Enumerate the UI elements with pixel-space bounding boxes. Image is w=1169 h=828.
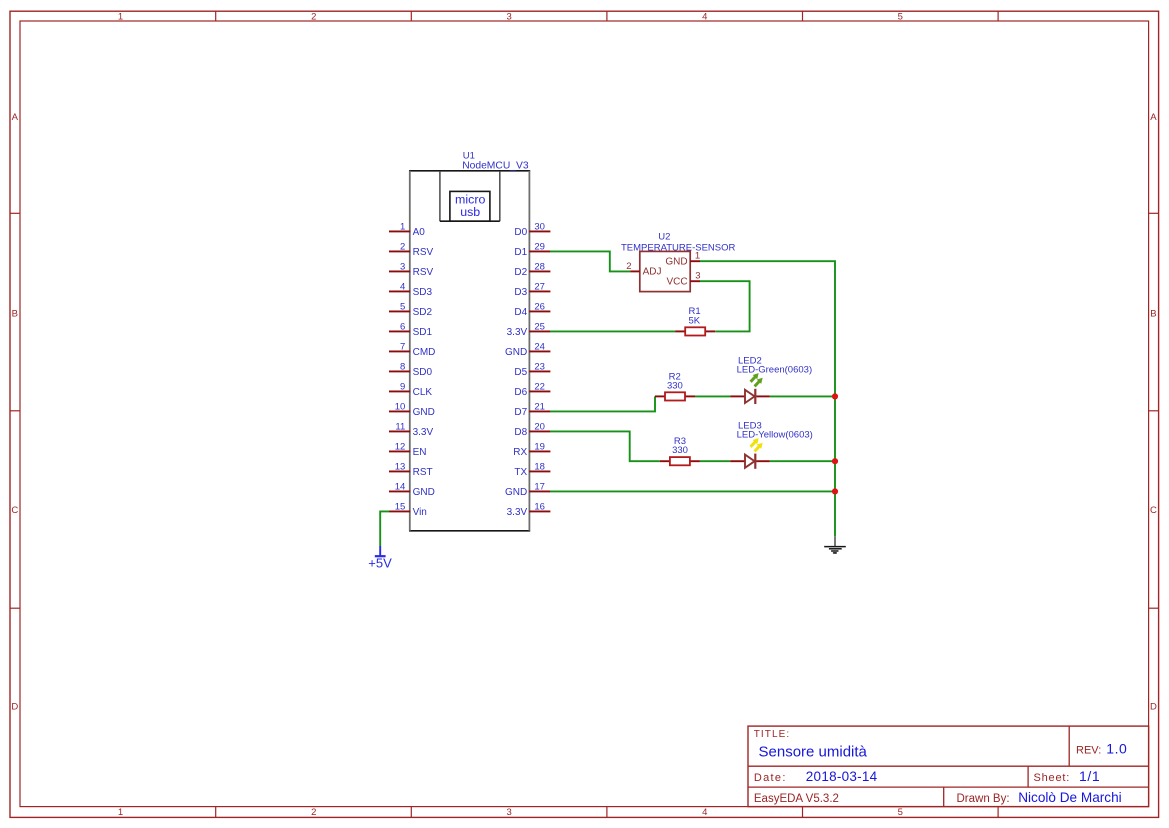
wire R2 to LED2 xyxy=(695,395,730,397)
U2 pin 3 VCC xyxy=(666,271,700,288)
svg-text:2018-03-14: 2018-03-14 xyxy=(806,769,878,784)
svg-text:3.3V: 3.3V xyxy=(507,327,528,338)
U2 value TEMPERATURE-SENSOR xyxy=(621,243,736,254)
svg-text:TEMPERATURE-SENSOR: TEMPERATURE-SENSOR xyxy=(621,243,736,254)
U1 pin 28 D2 xyxy=(514,261,550,278)
svg-text:22: 22 xyxy=(534,381,545,392)
svg-text:30: 30 xyxy=(534,221,545,232)
wire U2.GND(1) to ground trunk xyxy=(700,261,835,536)
svg-text:GND: GND xyxy=(665,256,687,267)
wire U1.D1(29) to U2.ADJ xyxy=(550,251,630,271)
U1 pin 2 RSV xyxy=(389,241,433,258)
svg-text:15: 15 xyxy=(395,501,406,512)
svg-text:20: 20 xyxy=(534,421,545,432)
+5V power flag xyxy=(368,546,392,570)
U1 pin 18 TX xyxy=(514,461,550,478)
svg-text:3.3V: 3.3V xyxy=(507,507,528,518)
U1 pin 16 3.3V xyxy=(507,501,551,518)
svg-text:GND: GND xyxy=(505,487,527,498)
U1 pin 7 CMD xyxy=(389,341,435,358)
U1 pin 23 D5 xyxy=(514,361,550,378)
svg-text:21: 21 xyxy=(534,401,545,412)
svg-text:D6: D6 xyxy=(514,387,527,398)
U1 pin 15 Vin xyxy=(389,501,427,518)
svg-text:GND: GND xyxy=(413,487,435,498)
U1 pin 9 CLK xyxy=(389,381,432,398)
U1 pin 11 3.3V xyxy=(389,421,434,438)
U1 pin 19 RX xyxy=(513,441,550,458)
svg-text:2: 2 xyxy=(311,12,316,23)
svg-text:19: 19 xyxy=(534,441,545,452)
svg-text:B: B xyxy=(1150,308,1156,319)
svg-text:9: 9 xyxy=(400,381,405,392)
svg-text:EN: EN xyxy=(413,447,427,458)
svg-text:+5V: +5V xyxy=(368,555,392,570)
U2 reference designator xyxy=(658,232,670,243)
Date value xyxy=(806,769,878,784)
svg-text:RST: RST xyxy=(413,467,433,478)
R1 reference label xyxy=(689,306,701,317)
ruler column ticks xyxy=(216,11,998,817)
svg-text:3: 3 xyxy=(400,261,405,272)
U1 pin 8 SD0 xyxy=(389,361,432,378)
svg-text:D3: D3 xyxy=(514,287,527,298)
U1 pin 10 GND xyxy=(389,401,435,418)
LED3 light arrows xyxy=(748,436,765,453)
IC U2 TEMPERATURE-SENSOR body xyxy=(640,251,690,291)
svg-text:12: 12 xyxy=(395,441,406,452)
title value Sensore umidita xyxy=(759,743,868,760)
svg-text:CMD: CMD xyxy=(413,347,436,358)
U1 usb notch outline xyxy=(440,171,500,221)
wire LED3 to trunk xyxy=(770,460,835,462)
U1 pin 5 SD2 xyxy=(389,301,432,318)
svg-text:29: 29 xyxy=(534,241,545,252)
svg-text:D7: D7 xyxy=(514,407,527,418)
svg-text:17: 17 xyxy=(534,481,545,492)
LED2 light arrows xyxy=(748,371,765,388)
U1 pin 29 D1 xyxy=(514,241,550,258)
svg-text:GND: GND xyxy=(413,407,435,418)
svg-text:5: 5 xyxy=(898,12,903,23)
svg-text:14: 14 xyxy=(395,481,406,492)
svg-text:23: 23 xyxy=(534,361,545,372)
LED3 value LED-Yellow(0603) xyxy=(737,430,813,441)
svg-text:LED-Green(0603): LED-Green(0603) xyxy=(737,365,813,376)
U1 value NodeMCU_V3 xyxy=(462,161,529,172)
U1 pin 30 D0 xyxy=(514,221,550,238)
svg-text:2: 2 xyxy=(400,241,405,252)
svg-text:13: 13 xyxy=(395,461,406,472)
svg-text:Drawn By:: Drawn By: xyxy=(957,793,1010,805)
resistor R1 xyxy=(675,327,715,335)
svg-text:U2: U2 xyxy=(658,232,670,243)
U1 pin 4 SD3 xyxy=(389,281,432,298)
svg-text:1: 1 xyxy=(695,250,700,261)
junction node at trunk y=461.2 xyxy=(832,458,838,464)
svg-text:GND: GND xyxy=(505,347,527,358)
svg-text:RX: RX xyxy=(513,447,527,458)
svg-text:LED-Yellow(0603): LED-Yellow(0603) xyxy=(737,430,813,441)
REV label xyxy=(1076,745,1101,757)
wire U2.VCC(3) to R1 xyxy=(700,281,750,331)
svg-text:Date:: Date: xyxy=(754,772,787,784)
svg-text:C: C xyxy=(1150,505,1157,516)
svg-text:B: B xyxy=(12,308,18,319)
U1 pin 6 SD1 xyxy=(389,321,432,338)
svg-text:SD1: SD1 xyxy=(413,327,433,338)
junction node at trunk y=396.4 xyxy=(832,393,838,399)
svg-text:1: 1 xyxy=(118,807,123,818)
svg-text:1.0: 1.0 xyxy=(1106,741,1127,757)
svg-text:usb: usb xyxy=(460,205,480,219)
ruler row labels xyxy=(11,112,1157,713)
svg-text:D0: D0 xyxy=(514,227,527,238)
svg-text:2: 2 xyxy=(311,807,316,818)
wire U1.D7(21) to R2 xyxy=(550,396,655,411)
svg-text:SD2: SD2 xyxy=(413,307,433,318)
title block TITLE label xyxy=(754,729,791,740)
svg-text:330: 330 xyxy=(672,445,688,456)
svg-text:D8: D8 xyxy=(514,427,527,438)
svg-text:VCC: VCC xyxy=(666,277,687,288)
svg-text:6: 6 xyxy=(400,321,405,332)
U2 pin 2 ADJ xyxy=(626,261,661,278)
EasyEDA version label xyxy=(754,793,839,805)
REV value 1.0 xyxy=(1106,741,1127,757)
R2 reference label xyxy=(669,371,681,382)
LED2 reference label xyxy=(738,355,762,366)
Sheet label xyxy=(1034,772,1071,784)
junction node at trunk y=491.4 xyxy=(832,488,838,494)
IC U1 NodeMCU_V3 body xyxy=(409,171,530,531)
svg-text:1: 1 xyxy=(400,221,405,232)
U1 pin 17 GND xyxy=(505,481,550,498)
micro usb connector box xyxy=(450,191,490,221)
svg-text:D: D xyxy=(11,701,18,712)
svg-text:SD3: SD3 xyxy=(413,287,433,298)
title block outline xyxy=(748,726,1149,807)
svg-text:RSV: RSV xyxy=(413,267,434,278)
U1 pin 20 D8 xyxy=(514,421,550,438)
svg-text:28: 28 xyxy=(534,261,545,272)
U1 pin 12 EN xyxy=(389,441,427,458)
U2 pin 1 GND xyxy=(665,250,700,267)
svg-text:3.3V: 3.3V xyxy=(413,427,434,438)
Date label xyxy=(754,772,787,784)
svg-text:10: 10 xyxy=(395,401,406,412)
U1 pin 25 3.3V xyxy=(507,321,551,338)
svg-text:D4: D4 xyxy=(514,307,527,318)
svg-text:18: 18 xyxy=(534,461,545,472)
svg-text:D: D xyxy=(1150,701,1157,712)
LED2 value LED-Green(0603) xyxy=(737,365,813,376)
LED LED3 diode symbol xyxy=(730,454,770,469)
svg-text:7: 7 xyxy=(400,341,405,352)
U1 pin 27 D3 xyxy=(514,281,550,298)
Drawn By value Nicolo De Marchi xyxy=(1018,790,1121,805)
U1 pin 13 RST xyxy=(389,461,433,478)
svg-text:26: 26 xyxy=(534,301,545,312)
svg-text:5: 5 xyxy=(898,807,903,818)
U1 reference designator xyxy=(463,150,475,161)
svg-text:330: 330 xyxy=(667,380,683,391)
svg-text:3: 3 xyxy=(695,271,700,282)
svg-text:RSV: RSV xyxy=(413,247,434,258)
svg-text:4: 4 xyxy=(702,12,707,23)
svg-text:NodeMCU_V3: NodeMCU_V3 xyxy=(462,161,529,172)
svg-text:D2: D2 xyxy=(514,267,527,278)
U1 pin 3 RSV xyxy=(389,261,433,278)
R1 value label xyxy=(688,316,700,327)
ground symbol xyxy=(824,536,846,553)
ruler row ticks xyxy=(10,213,1159,608)
svg-text:16: 16 xyxy=(534,501,545,512)
wire U1.GND(17) to trunk xyxy=(550,490,835,492)
R3 reference label xyxy=(674,436,686,447)
svg-text:TITLE:: TITLE: xyxy=(754,729,791,740)
wire R3 to LED3 xyxy=(700,460,730,462)
svg-text:CLK: CLK xyxy=(413,387,433,398)
svg-text:4: 4 xyxy=(702,807,707,818)
resistor R3 xyxy=(660,457,700,465)
svg-text:A: A xyxy=(1150,112,1157,123)
U1 pin 26 D4 xyxy=(514,301,550,318)
svg-text:3: 3 xyxy=(507,807,512,818)
svg-text:Sheet:: Sheet: xyxy=(1034,772,1071,784)
svg-text:D5: D5 xyxy=(514,367,527,378)
svg-text:8: 8 xyxy=(400,361,405,372)
R3 value label xyxy=(672,445,688,456)
svg-text:A: A xyxy=(12,112,19,123)
wire U1.D8(20) to R3 xyxy=(550,431,660,461)
U1 pin 24 GND xyxy=(505,341,550,358)
Drawn By label xyxy=(957,793,1010,805)
wire LED2 to trunk xyxy=(770,395,835,397)
svg-text:27: 27 xyxy=(534,281,545,292)
wire U1.Vin(15) to +5V flag xyxy=(380,511,389,546)
svg-text:C: C xyxy=(11,505,18,516)
svg-text:TX: TX xyxy=(514,467,527,478)
LED LED2 diode symbol xyxy=(730,389,770,404)
svg-text:A0: A0 xyxy=(413,227,426,238)
svg-text:SD0: SD0 xyxy=(413,367,433,378)
ruler column labels xyxy=(118,12,903,818)
svg-text:D1: D1 xyxy=(514,247,527,258)
U1 pin 21 D7 xyxy=(514,401,550,418)
svg-text:5: 5 xyxy=(400,301,405,312)
svg-text:1: 1 xyxy=(118,12,123,23)
R2 value label xyxy=(667,380,683,391)
svg-text:4: 4 xyxy=(400,281,405,292)
LED3 reference label xyxy=(738,420,762,431)
wire U1.3.3V(25) to R1 xyxy=(550,330,675,332)
svg-text:11: 11 xyxy=(395,421,405,432)
svg-text:25: 25 xyxy=(534,321,545,332)
svg-text:2: 2 xyxy=(626,261,631,272)
svg-text:ADJ: ADJ xyxy=(643,267,662,278)
svg-text:1/1: 1/1 xyxy=(1079,768,1100,784)
svg-text:Vin: Vin xyxy=(413,507,427,518)
U1 pin 22 D6 xyxy=(514,381,550,398)
svg-text:REV:: REV: xyxy=(1076,745,1101,757)
resistor R2 xyxy=(655,392,695,400)
svg-text:24: 24 xyxy=(534,341,545,352)
svg-text:5K: 5K xyxy=(688,316,700,327)
svg-text:3: 3 xyxy=(507,12,512,23)
svg-text:EasyEDA V5.3.2: EasyEDA V5.3.2 xyxy=(754,793,839,805)
Sheet value 1/1 xyxy=(1079,768,1100,784)
svg-text:Sensore umidità: Sensore umidità xyxy=(759,743,868,760)
U1 pin 14 GND xyxy=(389,481,435,498)
U1 pin 1 A0 xyxy=(389,221,425,238)
svg-text:Nicolò De Marchi: Nicolò De Marchi xyxy=(1018,790,1121,805)
